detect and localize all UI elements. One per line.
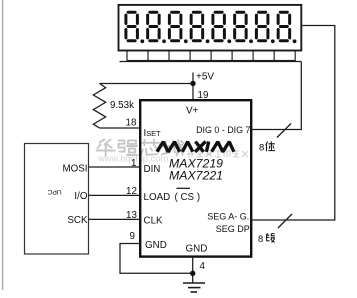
svg-text:I/O: I/O [74,191,87,202]
svg-text:( CS ): ( CS ) [175,192,201,203]
svg-text:U: U [57,188,62,195]
svg-text:GND: GND [145,240,167,251]
svg-text:8: 8 [259,143,264,154]
svg-text:GND: GND [186,244,208,255]
svg-text:LOAD: LOAD [144,192,171,203]
svg-text:V+: V+ [186,106,199,117]
svg-text:P: P [52,188,57,195]
svg-text:C: C [47,188,52,195]
svg-text:SEG DP: SEG DP [216,224,250,234]
svg-text:18: 18 [126,118,137,129]
svg-text:+5V: +5V [196,71,214,82]
svg-text:19: 19 [198,90,209,101]
svg-text:SCK: SCK [67,215,88,226]
svg-text:9: 9 [130,231,135,242]
svg-text:ISET: ISET [144,128,162,139]
svg-text:CLK: CLK [144,216,164,227]
svg-text:8: 8 [258,234,263,245]
svg-text:MOSI: MOSI [62,164,87,175]
svg-text:13: 13 [126,210,137,221]
svg-text:DIG 0 - DIG 7: DIG 0 - DIG 7 [196,125,250,135]
svg-text:9.53k: 9.53k [110,100,134,111]
svg-text:4: 4 [200,261,206,272]
svg-text:1: 1 [131,158,136,169]
svg-text:DIN: DIN [144,164,161,175]
svg-text:SEG A- G.,: SEG A- G., [207,212,252,222]
svg-text:MAX7221: MAX7221 [169,168,223,182]
svg-text:12: 12 [126,186,137,197]
